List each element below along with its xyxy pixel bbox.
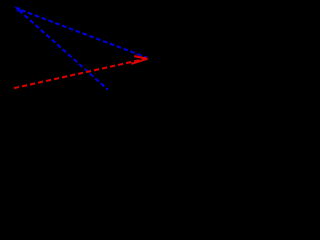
red arrowhead (open V pointing right, slightly up) xyxy=(131,56,147,64)
wire: blue dashed sight line (shallow, from red-arrow tip up-left to observer) xyxy=(16,8,147,57)
wire: red dashed ray (from lower-left to virtual image point) xyxy=(14,59,146,88)
background xyxy=(0,0,154,101)
wire: blue dashed sight line (steep, from lower area up-left to observer) xyxy=(19,10,108,90)
blue arrowhead (steep line, pointing up-left) xyxy=(16,7,21,12)
blue arrowhead (shallow line, pointing up-left) xyxy=(14,7,20,11)
